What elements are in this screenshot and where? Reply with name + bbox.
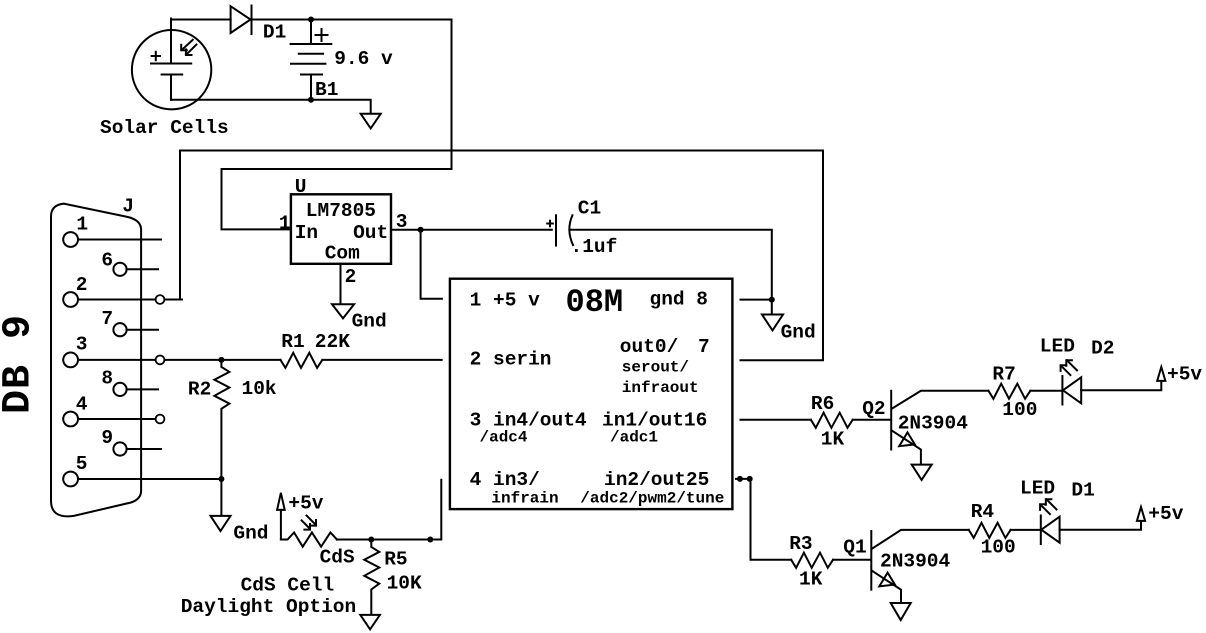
wire R1 to 08M pin 2 <box>322 359 441 361</box>
LED D1 light arrows <box>1040 499 1056 514</box>
node battery + junction <box>308 17 314 23</box>
svg-text:R5: R5 <box>384 549 407 571</box>
solar cell light arrows <box>181 40 196 55</box>
svg-text:DB 9: DB 9 <box>0 314 42 414</box>
node R1/R2 junction <box>218 357 224 363</box>
svg-text:Daylight Option: Daylight Option <box>181 596 357 618</box>
svg-text:2N3904: 2N3904 <box>898 413 969 435</box>
resistor R5 <box>364 540 379 615</box>
node pin 3 tap circle <box>156 356 165 365</box>
IC 08M box <box>450 279 733 509</box>
svg-text:R6: R6 <box>811 393 834 415</box>
LED D1 <box>1041 516 1060 545</box>
transistor Q1 2N3904 <box>870 531 872 590</box>
node pin 2 tap circle <box>156 295 165 304</box>
svg-text:08M: 08M <box>566 284 624 321</box>
wire pin 8 stub <box>127 388 158 390</box>
svg-text:7: 7 <box>698 336 710 358</box>
svg-text:/adc1: /adc1 <box>610 429 658 447</box>
resistor R4 <box>969 523 1011 538</box>
svg-text:3: 3 <box>76 334 88 356</box>
connector J DB9 outline <box>51 204 141 517</box>
pin 3 circle <box>63 353 78 368</box>
svg-text:5: 5 <box>76 453 88 475</box>
pin 5 circle <box>63 472 78 487</box>
svg-text:+5v: +5v <box>1148 503 1183 525</box>
battery plus sign <box>316 29 328 41</box>
svg-text:100: 100 <box>1002 399 1037 421</box>
wire 9.6V feed down to regulator input <box>222 20 452 230</box>
pin 9 circle <box>113 442 126 455</box>
svg-text:gnd 8: gnd 8 <box>650 289 709 311</box>
svg-text:U: U <box>295 176 307 198</box>
wire regulator com down <box>340 264 342 304</box>
transistor Q2 2N3904 <box>890 391 892 450</box>
svg-text:4 in3/: 4 in3/ <box>470 469 540 491</box>
resistor R7 <box>989 384 1031 399</box>
svg-text:1: 1 <box>76 214 88 236</box>
wire junction to ground <box>220 479 222 515</box>
wire R3 to Q1 base <box>833 559 870 561</box>
LED D2 light arrows <box>1061 360 1077 375</box>
node pin 5 dot a <box>737 476 743 482</box>
wire regulator out to C1 <box>391 229 552 231</box>
wire C1 to gnd rail right <box>570 230 772 314</box>
pin 4 circle <box>63 412 78 427</box>
CdS light arrows <box>302 516 316 530</box>
svg-text:C1: C1 <box>578 197 601 219</box>
+5v arrow (D2) <box>1157 367 1165 381</box>
svg-text:LED: LED <box>1020 478 1055 500</box>
wire LED D1 to +5v <box>1060 521 1141 530</box>
svg-text:R3: R3 <box>789 533 812 555</box>
svg-text:R7: R7 <box>992 363 1015 385</box>
ground (regulator com) <box>332 304 354 318</box>
ground (Q2 emitter) <box>912 465 932 480</box>
wire CdS to 08M pin 4 <box>337 480 441 540</box>
resistor R6 <box>811 413 853 428</box>
capacitor C1 <box>556 215 573 245</box>
svg-text:/adc2/pwm2/tune: /adc2/pwm2/tune <box>580 490 724 508</box>
node regulator output junction <box>418 227 424 233</box>
node pin 5 junction <box>218 476 224 482</box>
svg-text:2: 2 <box>76 274 88 296</box>
ground (R5) <box>360 615 380 629</box>
pin 8 circle <box>113 383 126 396</box>
svg-text:infrain: infrain <box>491 490 558 508</box>
svg-text:D1: D1 <box>1071 480 1094 502</box>
svg-text:serout/: serout/ <box>622 359 689 377</box>
wire +5v stem <box>280 510 282 540</box>
Q2 collector <box>892 391 989 409</box>
svg-text:/adc4: /adc4 <box>480 429 528 447</box>
svg-text:J: J <box>122 195 134 217</box>
svg-text:10K: 10K <box>387 573 422 595</box>
svg-text:4: 4 <box>76 393 88 415</box>
svg-text:1K: 1K <box>821 429 845 451</box>
wire pin 7 stub <box>127 329 158 331</box>
wire junction down to 08M pin 1 <box>421 230 442 299</box>
wire R7 to LED D2 <box>1030 390 1061 392</box>
svg-text:D2: D2 <box>1091 338 1114 360</box>
wire LED D2 to +5v <box>1081 381 1161 390</box>
ground (DB9 pin5/R2) <box>211 516 231 531</box>
svg-text:2 serin: 2 serin <box>470 349 552 371</box>
solar cell internal battery plates <box>151 19 191 100</box>
svg-text:9: 9 <box>101 427 113 449</box>
ground (battery) <box>361 114 381 129</box>
node pin 5 dot b <box>747 476 753 482</box>
Q1 emitter arrow <box>879 573 895 587</box>
svg-text:CdS Cell: CdS Cell <box>241 575 335 597</box>
Q2 emitter <box>892 430 921 464</box>
svg-text:Q2: Q2 <box>862 398 885 420</box>
svg-text:B1: B1 <box>315 79 338 101</box>
wire pin 5 to ground <box>78 478 221 480</box>
wire 08M pin 6 to R6 <box>741 419 811 421</box>
svg-text:in2/out25: in2/out25 <box>604 469 709 491</box>
node junction dot <box>427 537 433 543</box>
svg-text:LM7805: LM7805 <box>306 200 376 222</box>
svg-text:In: In <box>295 222 318 244</box>
capacitor plus sign <box>547 221 553 227</box>
svg-text:+5v: +5v <box>1167 363 1202 385</box>
svg-text:R4: R4 <box>971 501 995 523</box>
wire serial out loop (pin7 to DB9 pin2) <box>180 151 823 361</box>
pin 7 circle <box>113 323 126 336</box>
svg-text:22K: 22K <box>315 331 350 353</box>
wire R6 to Q2 base <box>853 419 890 421</box>
wire battery bottom rail <box>171 100 371 113</box>
wire pin 3 to R1 to 08M serin <box>78 359 281 361</box>
svg-text:100: 100 <box>981 537 1016 559</box>
ground (C1 / pin8) <box>762 315 783 331</box>
svg-text:CdS: CdS <box>320 547 355 569</box>
wire pin 1 stub <box>78 239 161 241</box>
pin 1 circle <box>63 232 78 247</box>
wire 08M pin 5 taps <box>736 478 751 480</box>
wire pin 4 stub <box>78 418 163 420</box>
svg-text:Gnd: Gnd <box>233 522 268 544</box>
battery B1 <box>291 20 332 101</box>
svg-text:1 +5 v: 1 +5 v <box>470 290 541 312</box>
wire pin 2 to serial in <box>78 299 182 301</box>
wire R4 to LED D1 <box>1011 529 1040 531</box>
svg-text:R1: R1 <box>281 331 304 353</box>
svg-text:D1: D1 <box>263 22 286 44</box>
wire pin 5 down to R3 <box>751 479 792 560</box>
wire diode to battery to feed corner <box>252 19 452 21</box>
svg-text:7: 7 <box>101 308 113 330</box>
ground (Q1 emitter) <box>891 603 911 620</box>
node R5 junction <box>368 537 374 543</box>
svg-text:Gnd: Gnd <box>352 310 387 332</box>
svg-text:out0/: out0/ <box>620 336 679 358</box>
wire pin 9 stub <box>127 448 161 450</box>
svg-text:R2: R2 <box>188 379 211 401</box>
wire 08M pin 8 stub <box>741 299 772 301</box>
photoresistor CdS <box>281 533 337 547</box>
svg-text:9.6 v: 9.6 v <box>334 48 393 70</box>
pin 6 circle <box>113 263 126 276</box>
svg-text:1: 1 <box>279 212 291 234</box>
svg-text:.1uf: .1uf <box>571 236 618 258</box>
svg-text:LED: LED <box>1040 336 1075 358</box>
svg-text:6: 6 <box>101 249 113 271</box>
svg-text:Q1: Q1 <box>843 537 866 559</box>
svg-text:8: 8 <box>101 368 113 390</box>
LED D2 <box>1062 376 1081 405</box>
svg-text:Gnd: Gnd <box>781 322 816 344</box>
resistor R1 <box>281 353 323 368</box>
solar cell circle <box>132 30 211 109</box>
svg-text:10k: 10k <box>242 378 277 400</box>
wire pin 6 stub <box>127 268 158 270</box>
Q1 collector <box>872 530 969 549</box>
svg-text:2: 2 <box>345 266 357 288</box>
resistor R3 <box>791 553 833 568</box>
node battery - junction <box>308 97 314 103</box>
solar cell plus sign <box>152 52 160 60</box>
pin 2 circle <box>63 292 78 307</box>
Q1 emitter <box>872 571 901 603</box>
+5v arrow (CdS supply) <box>277 493 285 510</box>
node pin 4 tap circle <box>156 415 165 424</box>
+5v arrow (D1) <box>1137 507 1145 521</box>
diode D1 (series blocking diode) <box>231 6 252 35</box>
svg-text:1K: 1K <box>799 568 823 590</box>
Q2 emitter arrow <box>899 432 915 446</box>
voltage regulator U LM7805 <box>291 194 391 263</box>
svg-text:+5v: +5v <box>288 493 323 515</box>
svg-text:Out: Out <box>353 222 388 244</box>
svg-text:2N3904: 2N3904 <box>880 551 951 573</box>
wire solar cell top to diode <box>171 19 231 21</box>
resistor R2 <box>214 360 229 479</box>
svg-text:Com: Com <box>325 242 360 264</box>
svg-text:Solar Cells: Solar Cells <box>100 117 229 139</box>
svg-text:infraout: infraout <box>622 379 699 397</box>
node gnd junction <box>769 297 775 303</box>
